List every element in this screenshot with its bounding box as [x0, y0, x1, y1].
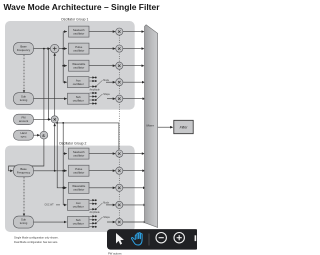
dashed wire base freq 1 to sub tuning 1	[23, 55, 25, 93]
svg-text:oscillator: oscillator	[73, 187, 84, 191]
sub 2 shape switch contacts	[90, 215, 93, 217]
aux oscillator 1	[68, 77, 90, 88]
svg-text:oscillator: oscillator	[73, 153, 84, 157]
wavetable oscillator 2	[69, 182, 90, 193]
level circles group 1	[116, 28, 123, 35]
svg-text:oscillator: oscillator	[73, 221, 84, 225]
sub 1 shape switch contacts	[90, 92, 93, 94]
svg-text:oscillator: oscillator	[73, 82, 84, 86]
wire junction to hard sync circle	[43, 49, 45, 132]
svg-text:Dual Mode configuration has tw: Dual Mode configuration has two sets.	[14, 240, 58, 244]
svg-text:Frequency: Frequency	[17, 48, 31, 52]
wire mixer to filter	[158, 126, 172, 128]
pulse oscillator 1	[69, 43, 90, 54]
wire sub tuning 2 to sub osc 2	[34, 221, 66, 223]
svg-text:Frequency: Frequency	[17, 170, 31, 174]
arrow into base freq 2	[10, 170, 13, 173]
plus circle	[50, 44, 59, 53]
partial percent text	[195, 235, 197, 241]
wire drop at circle column	[118, 123, 120, 150]
aux oscillator 2	[68, 199, 90, 210]
svg-text:&: &	[42, 133, 45, 138]
symbols in circles	[53, 47, 57, 121]
dotted level bus column	[118, 33, 120, 222]
svg-text:tuning: tuning	[20, 98, 28, 102]
wire fm amount to mult	[34, 118, 51, 120]
aux 2 mode switch contacts	[90, 199, 93, 201]
sub oscillator 2	[68, 217, 90, 228]
panel Oscillator Group 2	[5, 146, 135, 232]
svg-text:oscillator: oscillator	[73, 204, 84, 208]
toolbar	[107, 229, 199, 250]
svg-text:Wave Mode Architecture – Singl: Wave Mode Architecture – Single Filter	[4, 2, 161, 12]
stadium base frequency 2	[14, 165, 34, 177]
filter box	[174, 120, 193, 133]
hand icon	[131, 233, 142, 245]
svg-text:Mode: Mode	[103, 80, 109, 82]
arrow into and	[37, 134, 40, 137]
svg-text:tuning: tuning	[20, 221, 28, 225]
sub oscillator 1	[68, 93, 90, 104]
wire hard sync to and	[34, 134, 39, 136]
svg-text:OSC WT: OSC WT	[45, 205, 55, 207]
and circle hard sync	[40, 131, 48, 139]
aux/sub selector glyphs group 1	[90, 77, 103, 228]
stadium fm amount	[14, 114, 34, 125]
wire drop to wavetable 2	[57, 123, 65, 188]
wire plus to pulse osc 1	[59, 48, 67, 50]
arrowheads	[10, 30, 147, 223]
toolbar separator	[148, 234, 150, 246]
svg-text:Shape: Shape	[103, 94, 110, 96]
pulse oscillator 2	[69, 165, 90, 176]
stadium base frequency 1	[14, 43, 34, 55]
sawtooth oscillator 2	[69, 148, 90, 159]
arrow into sub tuning 1 top	[23, 90, 25, 93]
wire and to base freq 2	[9, 139, 44, 171]
mult circle fm	[51, 116, 58, 123]
arrow up into plus bottom	[53, 53, 56, 56]
wire base freq 2 to pulse 2	[34, 170, 68, 172]
svg-text:amount: amount	[19, 119, 29, 123]
osc wt arrow	[56, 204, 60, 206]
stadium sub tuning 2	[14, 216, 34, 228]
svg-text:Oscillator Group 1: Oscillator Group 1	[61, 17, 88, 21]
wire sub tuning 1 to sub osc 1	[34, 98, 68, 100]
oscillator row wires to circles and mixer	[89, 32, 145, 222]
junction dots	[43, 48, 64, 189]
cursor icon	[116, 233, 124, 245]
stadium sub tuning 1	[14, 93, 34, 105]
svg-text:sync: sync	[21, 135, 27, 139]
arrow wavetable2 from drop	[64, 187, 67, 190]
boxes: oscillators group 1	[14, 26, 123, 228]
panel Oscillator Group 1	[5, 21, 135, 110]
svg-text:Filter: Filter	[180, 126, 189, 130]
wire bus group 1	[63, 32, 67, 83]
svg-text:oscillator: oscillator	[73, 98, 84, 102]
svg-text:oscillator: oscillator	[73, 170, 84, 174]
zoom out icon	[156, 233, 166, 243]
wire fm out horizontal	[54, 122, 56, 124]
sawtooth oscillator 1	[69, 26, 90, 37]
svg-text:oscillator: oscillator	[73, 48, 84, 52]
arrow into sub tuning 2 top	[23, 214, 25, 217]
svg-text:Single Mode configuration only: Single Mode configuration only shown.	[14, 236, 59, 240]
svg-text:Shape: Shape	[103, 217, 110, 219]
svg-text:Mode: Mode	[103, 202, 109, 204]
mixer bar	[145, 25, 158, 228]
box texts	[17, 28, 86, 226]
level circles group 2	[116, 150, 123, 157]
wire base freq 1 to plus	[34, 48, 51, 50]
svg-text:Mixer: Mixer	[147, 124, 154, 128]
stadium hard sync	[14, 130, 34, 140]
arrow into plus left	[47, 47, 50, 50]
svg-text:PW actions: PW actions	[108, 251, 122, 255]
wire drop to group2 bus	[62, 123, 64, 205]
dashed wire base freq 2 to sub tuning 2	[23, 177, 25, 216]
svg-text:oscillator: oscillator	[73, 31, 84, 35]
svg-text:oscillator: oscillator	[73, 65, 84, 69]
arrow into mult left	[48, 118, 51, 121]
zoom in icon	[174, 233, 184, 243]
aux 1 mode switch contacts	[90, 77, 93, 79]
arrow up into mult bottom	[53, 123, 56, 126]
wire junction to fm line	[48, 49, 50, 120]
wire bus branch sawtooth 2	[63, 153, 67, 155]
wavetable oscillator 1	[69, 60, 90, 71]
wire fm mult vertical through plus	[54, 53, 56, 116]
